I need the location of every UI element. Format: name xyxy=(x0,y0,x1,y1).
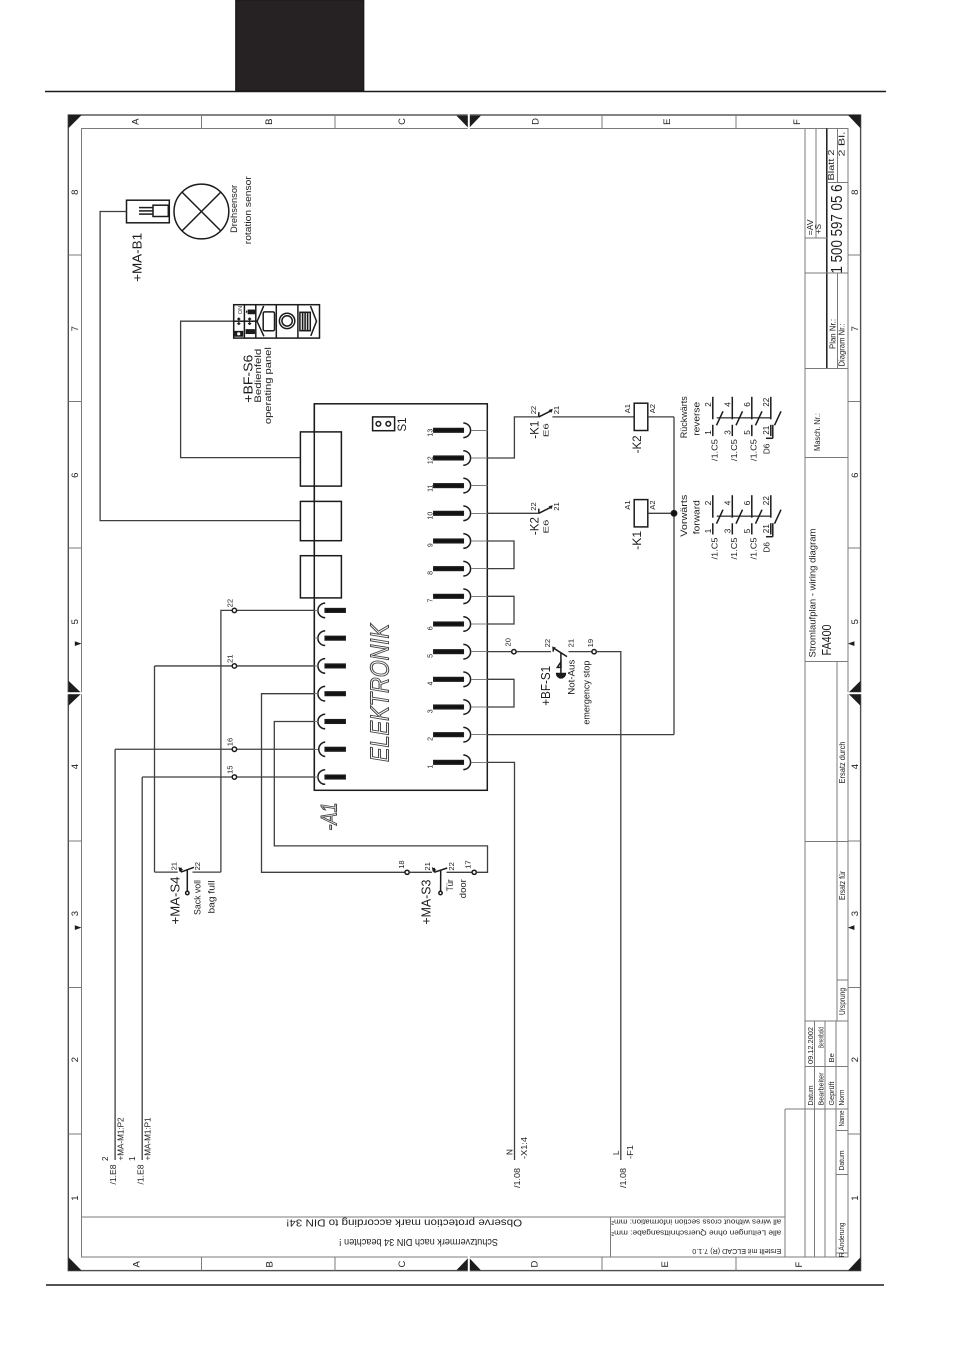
svg-text:7: 7 xyxy=(70,326,81,331)
svg-text:7: 7 xyxy=(850,326,861,331)
svg-text:/1.C5: /1.C5 xyxy=(710,537,719,559)
svg-text:1 500 597 05 6: 1 500 597 05 6 xyxy=(829,184,846,273)
svg-text:Drehsensor: Drehsensor xyxy=(229,185,239,233)
svg-text:2: 2 xyxy=(850,1057,861,1062)
svg-text:/1.E8: /1.E8 xyxy=(109,1164,118,1184)
svg-text:Not-Aus: Not-Aus xyxy=(566,659,576,695)
svg-text:21: 21 xyxy=(762,524,771,534)
svg-text:N: N xyxy=(506,1149,515,1155)
svg-text:4: 4 xyxy=(850,764,861,769)
svg-text:21: 21 xyxy=(552,502,561,510)
svg-text:Stromlaufplan - wiring diagram: Stromlaufplan - wiring diagram xyxy=(807,529,817,658)
svg-text:4: 4 xyxy=(724,402,733,407)
svg-text:D6: D6 xyxy=(762,542,771,553)
svg-text:22: 22 xyxy=(225,599,234,607)
svg-text:rotation sensor: rotation sensor xyxy=(243,176,253,244)
svg-text:6: 6 xyxy=(743,500,752,505)
svg-text:alle Leitungen ohne Querschnit: alle Leitungen ohne Querschnittsangabe: … xyxy=(611,1229,782,1238)
svg-text:1: 1 xyxy=(704,430,713,435)
svg-text:10: 10 xyxy=(428,512,435,520)
svg-text:A2: A2 xyxy=(648,500,657,509)
svg-text:Blatt 2: Blatt 2 xyxy=(827,149,836,181)
svg-text:A: A xyxy=(131,118,142,125)
svg-text:F: F xyxy=(794,1262,805,1268)
svg-text:Norm: Norm xyxy=(837,1090,846,1106)
svg-text:door: door xyxy=(458,879,468,898)
svg-text:-K2: -K2 xyxy=(528,517,542,535)
svg-text:18: 18 xyxy=(397,860,406,868)
svg-text:-X1:4: -X1:4 xyxy=(520,1137,529,1159)
svg-text:Datum: Datum xyxy=(806,1086,815,1106)
svg-text:6: 6 xyxy=(743,402,752,407)
svg-text:21: 21 xyxy=(762,425,771,435)
svg-text:13: 13 xyxy=(428,429,435,437)
svg-text:17: 17 xyxy=(464,860,473,868)
svg-text:A2: A2 xyxy=(648,404,657,413)
svg-text:E6: E6 xyxy=(541,520,550,534)
svg-text:6: 6 xyxy=(70,473,81,478)
svg-text:D6: D6 xyxy=(762,443,771,454)
svg-text:22: 22 xyxy=(543,639,552,647)
svg-text:R.: R. xyxy=(837,1250,846,1258)
svg-text:Erstellt mit ELCAD (R) 7.1.0: Erstellt mit ELCAD (R) 7.1.0 xyxy=(692,1247,781,1256)
svg-text:+MA-S3: +MA-S3 xyxy=(419,880,433,925)
svg-text:22: 22 xyxy=(762,496,771,506)
svg-text:/1.C5: /1.C5 xyxy=(749,439,758,461)
svg-text:FA400: FA400 xyxy=(820,624,834,655)
svg-text:16: 16 xyxy=(225,738,234,746)
svg-text:E: E xyxy=(660,1261,671,1267)
svg-text:Rückwärts: Rückwärts xyxy=(679,396,689,438)
svg-text:5: 5 xyxy=(743,430,752,435)
svg-text:-K2: -K2 xyxy=(630,435,644,453)
svg-text:1: 1 xyxy=(428,765,435,769)
svg-text:Masch. Nr.:: Masch. Nr.: xyxy=(813,413,822,451)
svg-text:A: A xyxy=(131,1261,142,1268)
svg-text:-K1: -K1 xyxy=(528,420,542,438)
svg-text:Observe protection mark accord: Observe protection mark according to DIN… xyxy=(286,1217,522,1229)
svg-text:4: 4 xyxy=(70,764,81,769)
svg-text:Diagram Nr.:: Diagram Nr.: xyxy=(837,324,846,367)
svg-text:22: 22 xyxy=(529,406,538,414)
svg-text:2: 2 xyxy=(101,1156,110,1161)
svg-text:3: 3 xyxy=(724,430,733,435)
svg-text:-F1: -F1 xyxy=(626,1144,635,1159)
svg-text:Ursprung: Ursprung xyxy=(838,988,847,1015)
svg-text:09.12.2002: 09.12.2002 xyxy=(806,1027,815,1064)
svg-text:9: 9 xyxy=(428,543,435,547)
svg-text:22: 22 xyxy=(762,397,771,407)
svg-text:Datum: Datum xyxy=(837,1151,846,1171)
svg-text:emergency stop: emergency stop xyxy=(581,661,591,725)
svg-text:/1.08: /1.08 xyxy=(619,1168,628,1188)
svg-text:2: 2 xyxy=(704,402,713,407)
svg-text:2: 2 xyxy=(428,737,435,741)
svg-text:1: 1 xyxy=(128,1156,137,1161)
svg-text:15: 15 xyxy=(225,766,234,774)
svg-text:3: 3 xyxy=(428,709,435,713)
svg-text:reverse: reverse xyxy=(691,402,701,436)
svg-text:C: C xyxy=(397,118,408,125)
svg-text:+MA-M1:P2: +MA-M1:P2 xyxy=(117,1117,126,1160)
svg-text:Name: Name xyxy=(837,1111,846,1127)
svg-text:22: 22 xyxy=(529,502,538,510)
svg-text:2: 2 xyxy=(704,500,713,505)
svg-text:/1.08: /1.08 xyxy=(513,1168,522,1188)
svg-text:+MA-M1:P1: +MA-M1:P1 xyxy=(144,1117,153,1160)
svg-text:B: B xyxy=(264,119,275,125)
svg-text:+MA-S4: +MA-S4 xyxy=(169,876,183,924)
svg-text:Tür: Tür xyxy=(445,879,455,891)
svg-text:6: 6 xyxy=(428,626,435,630)
svg-text:2 Bl.: 2 Bl. xyxy=(838,132,847,157)
svg-text:ELEKTRONIK: ELEKTRONIK xyxy=(367,623,395,762)
svg-text:L: L xyxy=(612,1150,621,1155)
svg-text:21: 21 xyxy=(225,654,234,662)
svg-text:11: 11 xyxy=(428,484,435,491)
svg-text:/1.C5: /1.C5 xyxy=(749,537,758,559)
svg-text:Plan Nr.:: Plan Nr.: xyxy=(828,319,837,349)
svg-text:3: 3 xyxy=(850,911,861,916)
svg-text:/1.C5: /1.C5 xyxy=(710,439,719,461)
svg-text:12: 12 xyxy=(428,456,435,464)
svg-text:-K1: -K1 xyxy=(630,530,644,549)
svg-text:4: 4 xyxy=(724,500,733,505)
svg-text:A1: A1 xyxy=(623,500,632,509)
svg-text:E6: E6 xyxy=(541,423,550,437)
svg-text:5: 5 xyxy=(850,619,861,624)
svg-text:B: B xyxy=(264,1261,275,1267)
svg-text:21: 21 xyxy=(567,639,576,647)
svg-text:19: 19 xyxy=(586,639,595,647)
svg-text:22: 22 xyxy=(447,862,456,870)
svg-text:S1: S1 xyxy=(397,417,409,431)
svg-text:/1.E8: /1.E8 xyxy=(136,1164,145,1184)
svg-text:+BF-S1: +BF-S1 xyxy=(539,666,553,706)
svg-text:1: 1 xyxy=(850,1195,861,1200)
svg-text:5: 5 xyxy=(70,619,81,624)
svg-text:all wires without cross sectio: all wires without cross section informat… xyxy=(611,1218,781,1227)
svg-text:5: 5 xyxy=(428,654,435,658)
svg-text:F: F xyxy=(792,119,803,125)
svg-text:Geprüft: Geprüft xyxy=(827,1081,836,1106)
svg-text:21: 21 xyxy=(552,406,561,414)
svg-text:Änderung: Änderung xyxy=(837,1223,846,1251)
svg-text:D: D xyxy=(531,118,542,125)
svg-text:E: E xyxy=(662,119,673,125)
svg-text:1: 1 xyxy=(704,528,713,533)
svg-text:21: 21 xyxy=(170,862,179,870)
svg-text:20: 20 xyxy=(504,638,513,646)
svg-text:4: 4 xyxy=(428,682,435,686)
svg-text:3: 3 xyxy=(724,528,733,533)
svg-text:bag full: bag full xyxy=(207,881,217,914)
svg-text:8: 8 xyxy=(850,190,861,195)
svg-text:5: 5 xyxy=(743,528,752,533)
svg-text:Vorwärts: Vorwärts xyxy=(679,494,689,537)
svg-text:Be: Be xyxy=(827,1053,836,1062)
svg-text:8: 8 xyxy=(428,571,435,575)
svg-text:-A1: -A1 xyxy=(317,803,342,831)
svg-text:Ersatz durch: Ersatz durch xyxy=(838,741,847,783)
svg-text:Sack voll: Sack voll xyxy=(193,880,203,915)
svg-text:21: 21 xyxy=(423,862,432,870)
svg-text:C: C xyxy=(397,1261,408,1268)
svg-text:8: 8 xyxy=(70,190,81,195)
svg-text:2: 2 xyxy=(70,1057,81,1062)
svg-text:1: 1 xyxy=(70,1195,81,1200)
svg-text:/1.C5: /1.C5 xyxy=(730,537,739,559)
svg-text:7: 7 xyxy=(428,599,435,603)
svg-text:Berenbold: Berenbold xyxy=(817,1027,826,1048)
svg-text:22: 22 xyxy=(193,862,202,870)
svg-text:D: D xyxy=(530,1261,541,1268)
svg-text:Ersatz für: Ersatz für xyxy=(838,871,847,900)
svg-text:ON: ON xyxy=(238,306,244,314)
svg-text:A1: A1 xyxy=(623,404,632,413)
svg-text:operating panel: operating panel xyxy=(263,347,273,424)
svg-text:/1.C5: /1.C5 xyxy=(730,439,739,461)
svg-text:3: 3 xyxy=(70,911,81,916)
svg-text:6: 6 xyxy=(850,473,861,478)
svg-text:+S: +S xyxy=(814,223,823,234)
svg-text:+MA-B1: +MA-B1 xyxy=(131,233,145,282)
svg-text:forward: forward xyxy=(691,500,701,534)
svg-text:Bedienfeld: Bedienfeld xyxy=(253,349,263,403)
svg-text:Bearbeiter: Bearbeiter xyxy=(817,1072,826,1105)
svg-text:Schutzvermerk nach DIN 34 beac: Schutzvermerk nach DIN 34 beachten ! xyxy=(339,1236,498,1248)
